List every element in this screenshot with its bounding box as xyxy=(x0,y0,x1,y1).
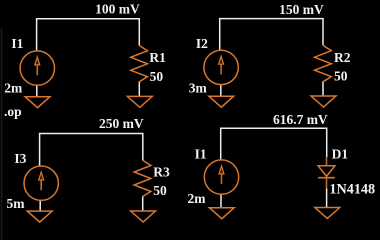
svg-text:R3: R3 xyxy=(153,165,170,180)
svg-text:1N4148: 1N4148 xyxy=(329,182,375,198)
wire circle to ground xyxy=(220,194,222,208)
ground under I1 xyxy=(209,208,234,219)
svg-text:50: 50 xyxy=(153,183,167,198)
svg-text:50: 50 xyxy=(150,69,164,84)
left edge artifact xyxy=(1,28,3,240)
svg-text:I2: I2 xyxy=(196,36,208,51)
diode D1 xyxy=(318,157,335,189)
svg-text:150 mV: 150 mV xyxy=(279,2,324,17)
ground under D1 xyxy=(315,208,340,219)
ground under I1 xyxy=(25,97,50,108)
current source I2 xyxy=(204,50,238,84)
ground under R2 xyxy=(311,96,336,107)
svg-text:I3: I3 xyxy=(14,151,26,166)
svg-text:D1: D1 xyxy=(332,147,349,162)
svg-text:I1: I1 xyxy=(11,36,23,51)
current source I3 xyxy=(24,166,58,200)
wire circle to ground xyxy=(39,200,41,212)
wire resistor to ground xyxy=(322,81,324,96)
wire resistor to ground xyxy=(142,196,144,211)
current source I1 xyxy=(204,160,238,194)
ground under I2 xyxy=(209,96,234,107)
wire diode to ground xyxy=(326,188,328,207)
ground under R3 xyxy=(131,211,156,222)
current source I1 xyxy=(20,51,54,85)
resistor R1 xyxy=(131,45,148,82)
svg-text:616.7 mV: 616.7 mV xyxy=(273,112,328,127)
svg-text:R1: R1 xyxy=(149,50,166,65)
wire circle to ground xyxy=(36,85,38,97)
svg-text:3m: 3m xyxy=(189,80,208,95)
wire net 150mV xyxy=(220,19,323,51)
svg-text:100 mV: 100 mV xyxy=(95,2,140,17)
wire resistor to ground xyxy=(138,82,140,97)
svg-text:5m: 5m xyxy=(7,196,26,211)
ground under I3 xyxy=(27,211,52,222)
wire net 100mV xyxy=(37,19,140,52)
svg-text:I1: I1 xyxy=(195,146,207,161)
wire circle to ground xyxy=(220,84,222,96)
svg-text:50: 50 xyxy=(334,69,348,84)
resistor R2 xyxy=(315,45,332,82)
svg-text:.op: .op xyxy=(4,104,22,119)
svg-text:2m: 2m xyxy=(4,80,23,95)
ground under R1 xyxy=(127,96,152,107)
svg-text:250 mV: 250 mV xyxy=(99,116,144,131)
resistor R3 xyxy=(134,160,151,197)
svg-text:2m: 2m xyxy=(188,191,207,206)
wire net 250mV xyxy=(40,134,143,167)
wire net 616.7mV xyxy=(221,128,327,160)
svg-text:R2: R2 xyxy=(334,50,351,65)
